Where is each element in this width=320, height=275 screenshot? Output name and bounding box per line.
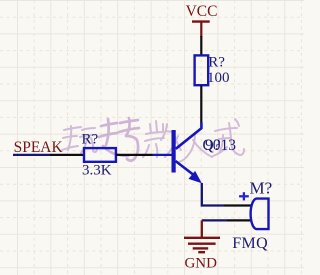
GND bar 2 bbox=[188, 242, 216, 244]
GND bar 3 bbox=[193, 247, 209, 249]
wire R1 to Q1 collector bbox=[200, 86, 202, 123]
VCC stem bbox=[200, 22, 202, 37]
wire ground node segment bbox=[202, 219, 227, 221]
svg-text:M?: M? bbox=[250, 178, 273, 197]
power port GND bbox=[184, 220, 220, 252]
svg-text:SPEAK: SPEAK bbox=[14, 139, 64, 156]
watermark bbox=[62, 118, 244, 162]
wire VCC to R1 bbox=[200, 36, 202, 55]
svg-text:9013: 9013 bbox=[205, 137, 236, 154]
power port VCC bbox=[186, 3, 218, 37]
svg-text:R?: R? bbox=[208, 55, 225, 71]
svg-text:3.3K: 3.3K bbox=[82, 163, 112, 179]
svg-text:FMQ: FMQ bbox=[232, 235, 268, 252]
svg-text:100: 100 bbox=[207, 70, 230, 86]
resistor R2 bbox=[84, 148, 116, 162]
Q1 emitter arrow bbox=[189, 171, 202, 183]
GND bar 1 bbox=[184, 237, 220, 239]
Q1 base pin stub bbox=[153, 154, 172, 156]
Q1 base bar bbox=[172, 130, 176, 173]
VCC bar bbox=[192, 20, 210, 22]
wire SPEAK stub bbox=[13, 154, 50, 156]
Q1 emitter lead bbox=[176, 161, 196, 176]
GND stem bbox=[201, 220, 203, 237]
wire Q1 emitter to buzzer plus pin bbox=[202, 183, 224, 206]
svg-text:VCC: VCC bbox=[186, 3, 218, 20]
GND bar 4 bbox=[198, 251, 205, 253]
svg-text:GND: GND bbox=[184, 255, 217, 271]
transistor Q1 (NPN 9013) bbox=[153, 122, 202, 183]
wire buzzer minus pin to ground node bbox=[227, 219, 252, 221]
wire SPEAK to R2 bbox=[50, 154, 84, 156]
wire to buzzer plus pin (continued) bbox=[224, 204, 252, 206]
plus polarity mark bbox=[239, 192, 249, 200]
buzzer M1 bbox=[251, 199, 269, 230]
resistor R1 bbox=[195, 55, 209, 85]
Q1 collector lead bbox=[176, 122, 202, 149]
wire R2 to Q1 base bbox=[116, 154, 153, 156]
svg-text:R?: R? bbox=[82, 131, 99, 147]
